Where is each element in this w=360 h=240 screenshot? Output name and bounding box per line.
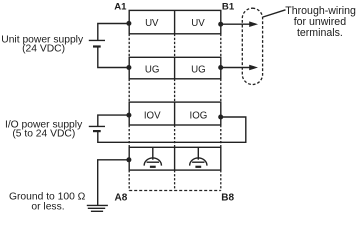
leader line to through-wiring note xyxy=(263,10,286,17)
svg-text:IOV: IOV xyxy=(144,111,161,122)
wire A7 to earth ground xyxy=(98,160,129,206)
battery B1 unit power supply: long plate xyxy=(89,39,105,41)
svg-text:UV: UV xyxy=(145,18,159,29)
node B5 terminal dot xyxy=(218,115,223,120)
svg-text:UG: UG xyxy=(191,65,206,76)
wire battery1 minus to A3 xyxy=(98,47,129,68)
terminal block row 7 box (A7/B7 shield terminals) xyxy=(129,147,221,170)
svg-text:A1: A1 xyxy=(114,2,127,13)
node A5 terminal dot xyxy=(126,113,131,118)
svg-text:IOG: IOG xyxy=(190,111,208,122)
node B3 terminal dot xyxy=(218,65,223,70)
terminal block row 1 box (A1/B1) xyxy=(129,10,221,33)
wire B3 through-wiring arrow xyxy=(221,65,258,71)
svg-text:UG: UG xyxy=(145,65,160,76)
wire battery2 plus to A5 xyxy=(98,115,129,126)
annotation: Unit power supply (24 VDC) xyxy=(1,34,84,54)
annotation: Through-wiring for unwired terminals xyxy=(285,5,356,39)
svg-text:(24 VDC): (24 VDC) xyxy=(22,44,65,55)
node B1 terminal dot xyxy=(218,22,223,27)
svg-text:terminals.: terminals. xyxy=(297,27,343,39)
svg-text:(5 to 24 VDC): (5 to 24 VDC) xyxy=(12,129,75,140)
svg-text:or less.: or less. xyxy=(31,201,64,212)
svg-text:A8: A8 xyxy=(115,193,128,204)
svg-text:B1: B1 xyxy=(222,2,235,13)
wire battery2 minus through-route to B5 (IOG) xyxy=(98,117,246,142)
node A1 terminal dot xyxy=(126,21,131,26)
wire B1 through-wiring arrow xyxy=(221,21,258,27)
wire battery1 plus to A1 xyxy=(98,24,129,41)
battery B2 I/O power supply: short plate xyxy=(93,130,101,132)
svg-text:B8: B8 xyxy=(221,193,234,204)
battery B2 I/O power supply: long plate xyxy=(89,125,105,127)
unwired terminal row 6 (dashed outline) xyxy=(129,125,221,147)
unwired terminal row 4 (dashed outline) xyxy=(129,79,221,102)
unwired terminal row 8 (dashed outline) xyxy=(129,170,221,190)
shield ground symbol (terminal B7) xyxy=(190,147,207,167)
battery B1 unit power supply: short plate xyxy=(93,45,101,47)
unwired terminal row 2 (dashed outline) xyxy=(129,34,221,58)
annotation: I/O power supply (5 to 24 VDC) xyxy=(5,119,83,139)
earth ground symbol xyxy=(87,205,108,211)
through-wiring highlight (dashed stadium) xyxy=(242,8,262,84)
svg-text:UV: UV xyxy=(191,18,205,29)
node A7 terminal dot xyxy=(126,157,131,162)
annotation: Ground to 100 ohm or less xyxy=(9,191,86,212)
node A3 terminal dot xyxy=(126,65,131,70)
terminal block row 5 box (A5/B5) xyxy=(129,102,221,125)
shield ground symbol (terminal A7) xyxy=(144,147,161,167)
terminal block row 3 box (A3/B3) xyxy=(129,57,221,79)
